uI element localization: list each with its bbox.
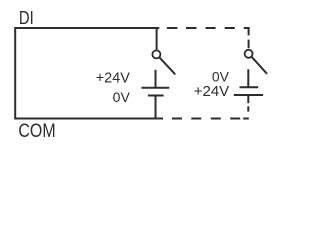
svg-text:DI: DI bbox=[19, 7, 34, 28]
svg-text:+24V: +24V bbox=[96, 70, 130, 86]
svg-text:COM: COM bbox=[18, 120, 55, 142]
svg-text:0V: 0V bbox=[113, 89, 131, 105]
svg-text:+24V: +24V bbox=[194, 83, 229, 100]
